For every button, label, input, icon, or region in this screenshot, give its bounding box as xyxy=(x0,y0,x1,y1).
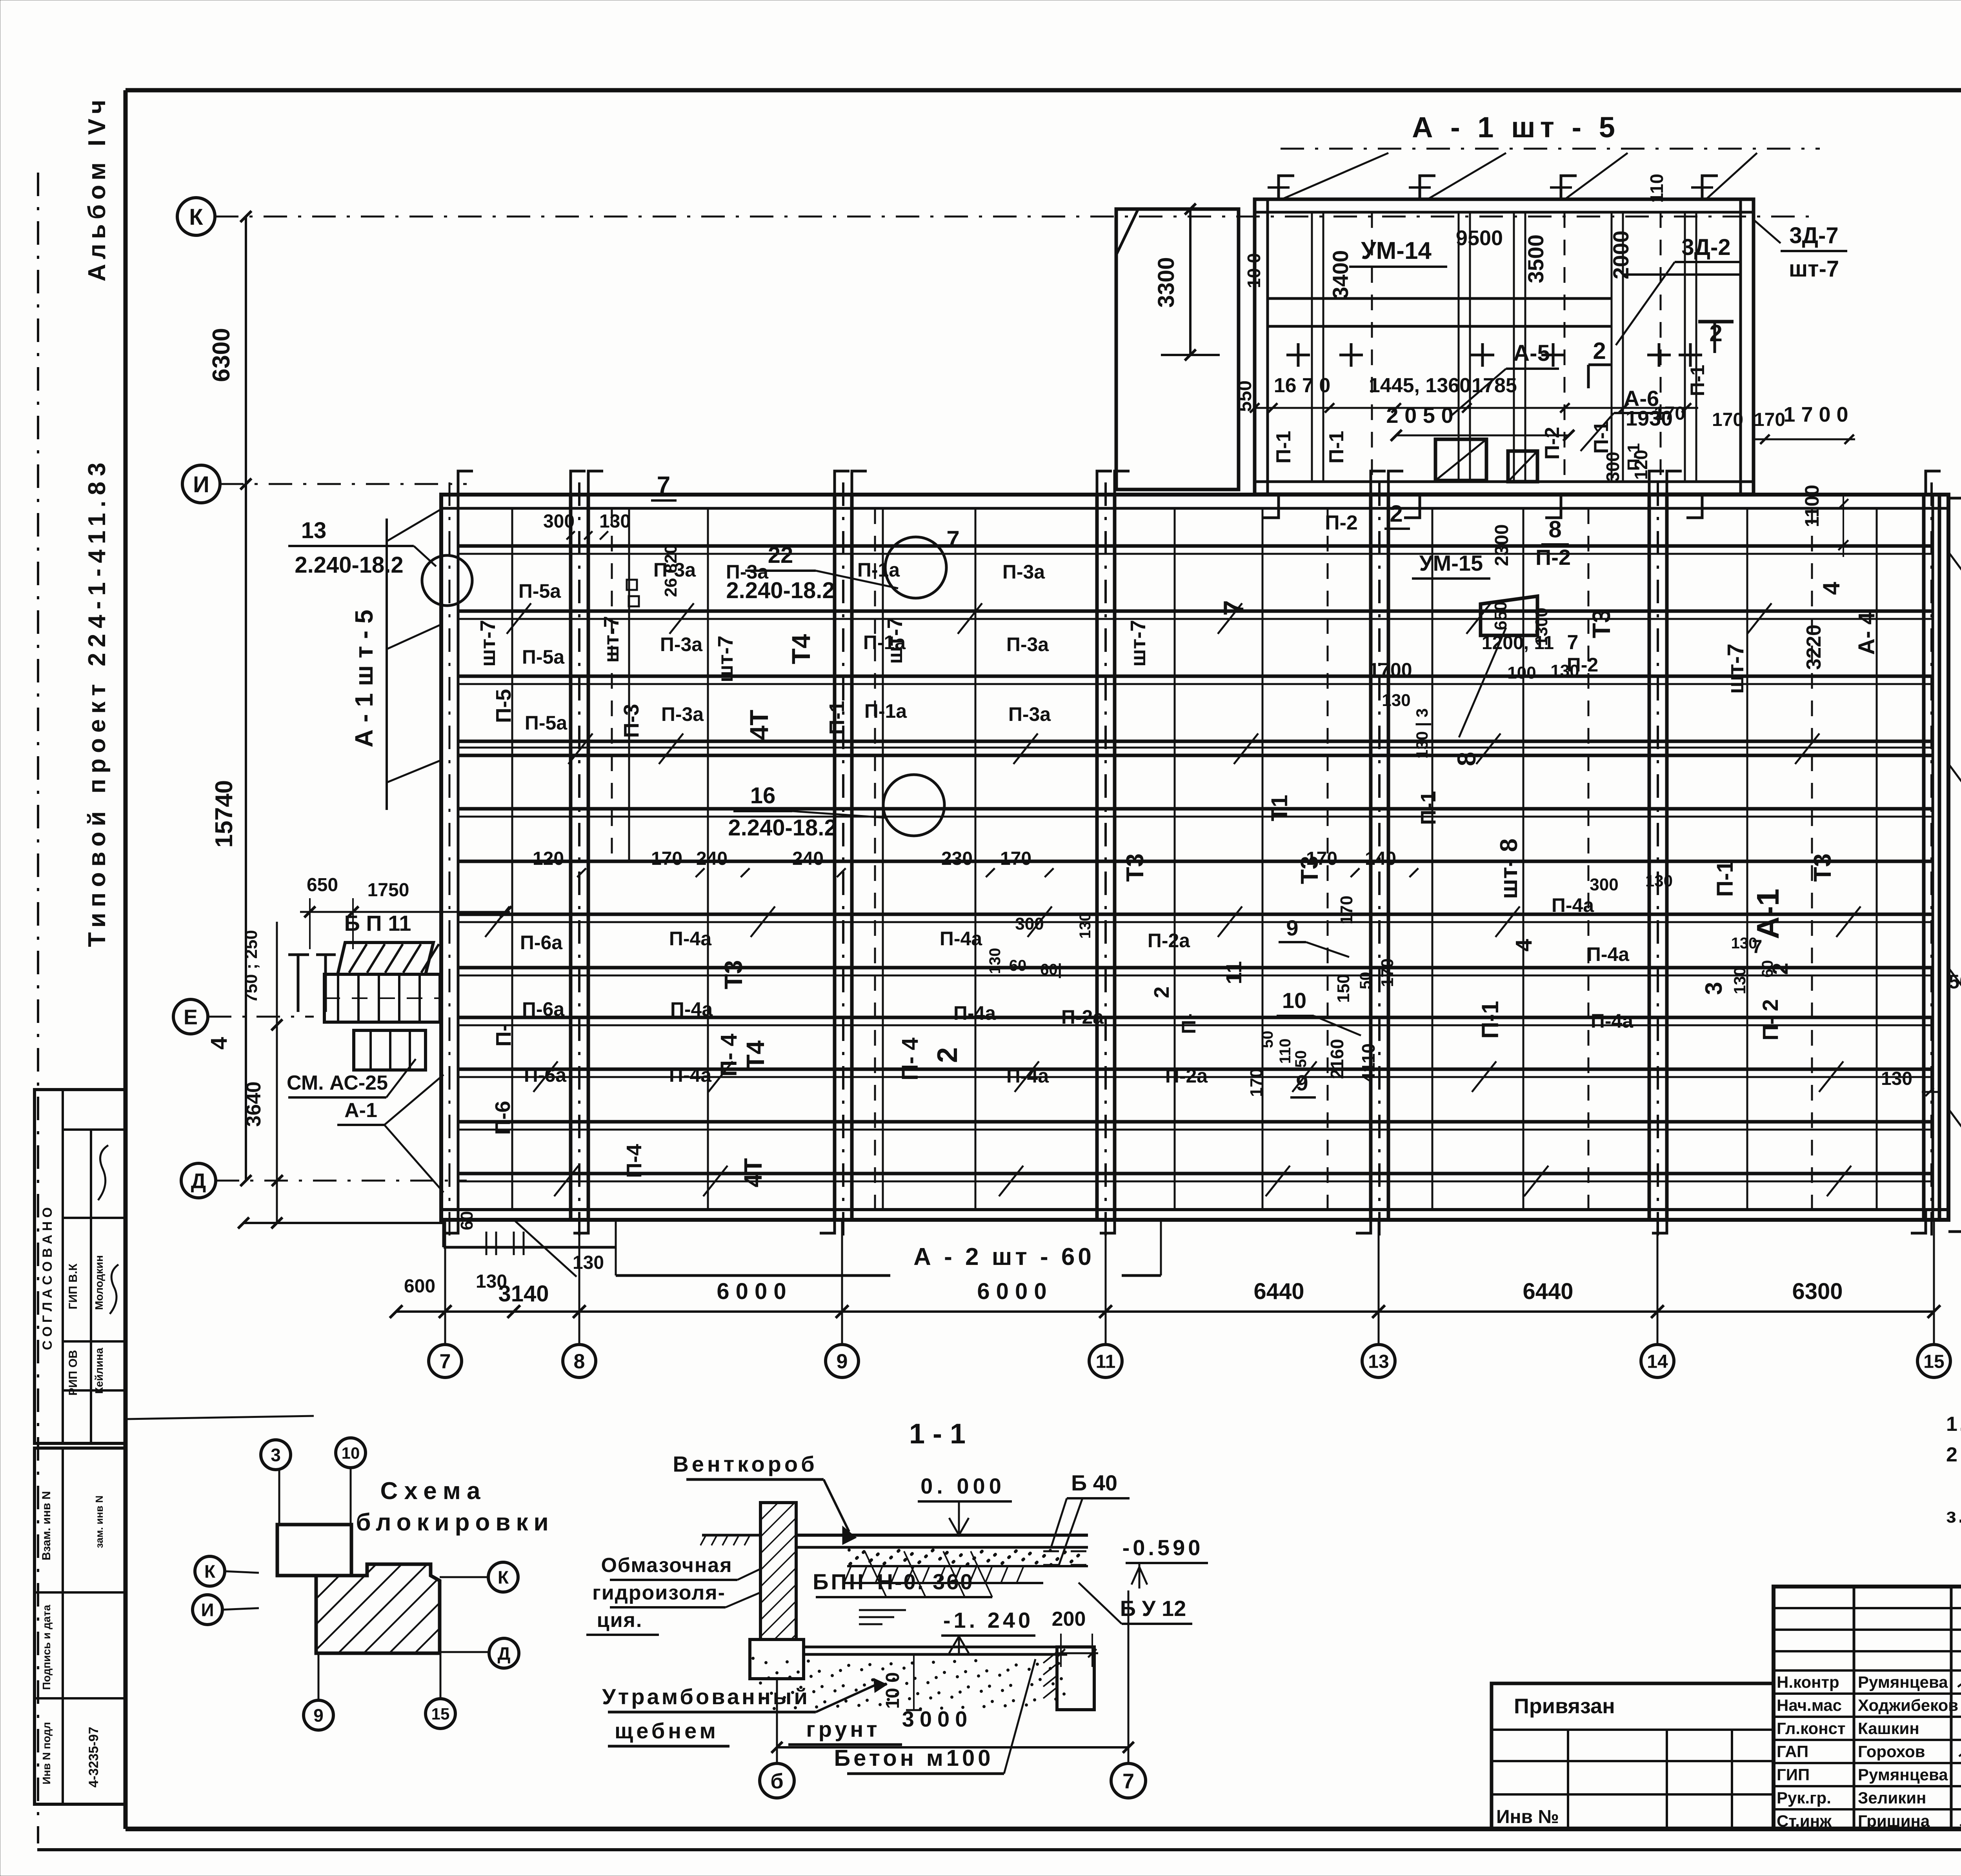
axis Д dash-dot line xyxy=(216,1180,467,1182)
svg-text:150: 150 xyxy=(1334,974,1353,1003)
svg-text:П-3: П-3 xyxy=(620,704,643,738)
vertical bracket label А-1 шт-5 left of plan xyxy=(386,519,388,810)
svg-text:П-4а: П-4а xyxy=(669,1064,712,1086)
svg-text:Гришина: Гришина xyxy=(1858,1812,1930,1830)
title block staff row lines xyxy=(1774,1669,1961,1672)
svg-text:3640: 3640 xyxy=(242,1081,265,1127)
svg-text:Горохов: Горохов xyxy=(1858,1742,1925,1761)
svg-text:130: 130 xyxy=(1382,691,1410,710)
upper plan vertical panel joints xyxy=(1311,212,1313,482)
svg-text:И: И xyxy=(201,1600,214,1620)
svg-text:9500: 9500 xyxy=(1456,226,1503,250)
svg-text:Румянцева: Румянцева xyxy=(1858,1765,1948,1784)
svg-text:-1. 240: -1. 240 xyxy=(943,1608,1033,1632)
opening rect УМ-15 xyxy=(1481,596,1537,635)
svg-text:50: 50 xyxy=(1357,972,1374,990)
svg-text:1. Данный лист см. совместн: 1. Данный лист см. совместно с АС-17. xyxy=(1946,1413,1961,1436)
svg-text:3Д-2: 3Д-2 xyxy=(1681,235,1730,260)
svg-text:РИП ОВ: РИП ОВ xyxy=(67,1350,80,1396)
svg-text:300: 300 xyxy=(1603,452,1623,482)
svg-text:Кашкин: Кашкин xyxy=(1858,1719,1919,1738)
svg-text:шт-7: шт-7 xyxy=(883,617,907,664)
svg-text:1700: 1700 xyxy=(1368,659,1412,681)
upper plan internal horizontal lines xyxy=(1268,297,1612,300)
left stamp signature squiggles xyxy=(98,1145,108,1200)
svg-text:10 0: 10 0 xyxy=(882,1672,903,1709)
svg-text:П-5: П-5 xyxy=(492,689,515,723)
svg-text:Схема: Схема xyxy=(380,1478,487,1505)
svg-text:Инв №: Инв № xyxy=(1496,1807,1559,1827)
svg-text:9: 9 xyxy=(837,1350,848,1373)
svg-text:П-6: П-6 xyxy=(491,1101,515,1135)
axis circle 15 xyxy=(1917,1345,1950,1377)
svg-text:П-5а: П-5а xyxy=(525,712,568,734)
title block column lines xyxy=(1853,1587,1855,1829)
axis Е dash-dot line xyxy=(208,1016,314,1018)
svg-text:10 0: 10 0 xyxy=(1244,253,1264,288)
stray horizontal line below stamp xyxy=(127,1416,314,1419)
axis circle 9 xyxy=(826,1345,859,1377)
svg-text:11: 11 xyxy=(1221,961,1246,984)
svg-text:П-: П- xyxy=(492,1024,515,1047)
svg-text:Подпись и дата: Подпись и дата xyxy=(40,1605,53,1690)
detail circle mid xyxy=(885,537,946,598)
svg-text:2 * 3Д-7 только для сечения: 2 * 3Д-7 только для сечения 2-2 для подв… xyxy=(1946,1443,1961,1466)
svg-text:П-1: П-1 xyxy=(1272,431,1295,464)
schema axis circle 3 xyxy=(261,1440,291,1470)
svg-text:П-1а: П-1а xyxy=(864,700,907,722)
svg-text:2300: 2300 xyxy=(1492,524,1512,566)
svg-text:Гл.конст: Гл.конст xyxy=(1777,1719,1846,1738)
svg-text:650: 650 xyxy=(1491,601,1510,630)
svg-text:7: 7 xyxy=(440,1350,451,1373)
svg-text:Б 40: Б 40 xyxy=(1071,1470,1117,1495)
svg-text:22: 22 xyxy=(768,542,793,568)
svg-text:110: 110 xyxy=(1277,1039,1294,1064)
svg-text:Т3: Т3 xyxy=(1122,853,1149,882)
svg-text:170: 170 xyxy=(1000,848,1031,869)
svg-text:500: 500 xyxy=(1948,971,1961,993)
svg-text:60: 60 xyxy=(1759,960,1776,978)
axis drop lines to circles xyxy=(444,1220,446,1345)
svg-text:П-1а: П-1а xyxy=(857,559,900,581)
svg-text:Взам. инв N: Взам. инв N xyxy=(40,1491,53,1561)
svg-text:6440: 6440 xyxy=(1523,1279,1573,1304)
svg-text:14: 14 xyxy=(1647,1351,1668,1372)
svg-text:П-6а: П-6а xyxy=(522,998,565,1020)
svg-text:Типовой проект 224-1-411.83: Типовой проект 224-1-411.83 xyxy=(84,457,111,947)
svg-text:3: 3 xyxy=(271,1445,281,1465)
axis circle И left xyxy=(182,465,220,503)
svg-text:гидроизоля-: гидроизоля- xyxy=(592,1581,726,1604)
svg-text:Б У 12: Б У 12 xyxy=(1120,1596,1186,1621)
axis circle 7 xyxy=(429,1345,462,1377)
upper plan dimension 3300 xyxy=(1189,209,1192,355)
axis 7 dash line in wall xyxy=(449,482,451,1236)
svg-text:СМ. АС-25: СМ. АС-25 xyxy=(287,1072,388,1094)
svg-text:4-3235-97: 4-3235-97 xyxy=(86,1727,101,1787)
svg-text:1445, 1360: 1445, 1360 xyxy=(1369,374,1471,397)
section 1-1 bottom stipple xyxy=(752,1657,755,1660)
svg-text:16: 16 xyxy=(750,783,776,808)
svg-text:9: 9 xyxy=(1286,915,1298,940)
anchor hooks main plan bottom xyxy=(443,1210,458,1233)
section 1-1 bottom floor slab xyxy=(804,1646,1067,1649)
title block main outline xyxy=(1774,1587,1961,1829)
svg-text:6440: 6440 xyxy=(1253,1279,1304,1304)
svg-text:П-3а: П-3а xyxy=(1002,561,1045,583)
svg-text:4Т: 4Т xyxy=(744,710,773,740)
svg-text:А-1: А-1 xyxy=(344,1099,377,1122)
tick on Д axis second chain xyxy=(272,1175,283,1186)
svg-text:170: 170 xyxy=(651,848,682,869)
svg-text:П-3а: П-3а xyxy=(726,561,769,583)
upper plan anchor hooks bottom xyxy=(1263,494,1279,518)
schema axis circle К right xyxy=(488,1562,518,1592)
svg-text:П-4а: П-4а xyxy=(940,928,982,950)
svg-text:4: 4 xyxy=(1818,582,1845,595)
svg-text:П-1: П-1 xyxy=(1417,791,1440,825)
section 1-1 wall footing xyxy=(750,1639,804,1679)
axis circle 14 xyxy=(1641,1345,1674,1377)
secondary horizontal lines (panel edges) xyxy=(458,553,1933,555)
svg-text:П-3а: П-3а xyxy=(660,633,703,655)
svg-text:170: 170 xyxy=(1654,403,1685,424)
П mark next to dim xyxy=(297,955,300,1012)
svg-text:шт- 8: шт- 8 xyxy=(1495,839,1523,899)
upper plan anchor hooks top xyxy=(1279,176,1294,199)
svg-text:170: 170 xyxy=(1754,409,1785,430)
svg-text:Д: Д xyxy=(191,1169,206,1193)
upper plan outline xyxy=(1255,199,1754,494)
section 1-1 БП11 slab band with ticks xyxy=(844,1582,1043,1584)
svg-text:ГИП: ГИП xyxy=(1777,1765,1810,1784)
svg-text:140: 140 xyxy=(1365,848,1396,869)
svg-text:2: 2 xyxy=(1150,986,1173,998)
svg-text:Б П 11: Б П 11 xyxy=(344,911,411,935)
svg-text:16 7 0: 16 7 0 xyxy=(1274,374,1331,397)
svg-text:Зеликин: Зеликин xyxy=(1858,1789,1926,1807)
svg-text:А-1: А-1 xyxy=(1750,889,1785,939)
schema axis circle И left xyxy=(193,1595,222,1625)
svg-text:Т3: Т3 xyxy=(1296,856,1323,884)
svg-text:3400: 3400 xyxy=(1328,250,1353,299)
svg-text:П-6а: П-6а xyxy=(520,932,563,953)
axis circle 11 xyxy=(1089,1345,1122,1377)
БП11 ribbed panel plan xyxy=(324,974,440,1022)
svg-text:110: 110 xyxy=(1646,174,1667,203)
detail circle lower xyxy=(883,775,944,836)
svg-text:1100: 1100 xyxy=(1801,485,1823,527)
svg-text:1750: 1750 xyxy=(367,880,409,901)
svg-text:4110: 4110 xyxy=(1358,1043,1379,1083)
svg-text:П- 4: П- 4 xyxy=(716,1034,742,1076)
lower ribbed panel piece xyxy=(354,1030,426,1070)
main plan outer boundary xyxy=(441,495,1948,1220)
svg-text:П-4а: П-4а xyxy=(953,1002,996,1024)
svg-text:П-4: П-4 xyxy=(622,1144,646,1178)
svg-text:6300: 6300 xyxy=(208,328,235,382)
section 1-1 screed stipple band xyxy=(848,1549,851,1552)
svg-text:Д: Д xyxy=(498,1643,511,1664)
svg-text:БПII: БПII xyxy=(813,1569,866,1594)
svg-text:50: 50 xyxy=(1259,1031,1276,1048)
svg-text:П-4а: П-4а xyxy=(1552,894,1594,916)
svg-text:8: 8 xyxy=(574,1350,585,1373)
left stamp box СОГЛАСОВАНО xyxy=(35,1090,126,1443)
bottom dim ticks xyxy=(390,1305,403,1318)
svg-text:130: 130 xyxy=(599,511,631,532)
axis circle 8 xyxy=(563,1345,596,1377)
section 1-1 wall hatched xyxy=(760,1503,796,1639)
section 1-1 dashed beam right xyxy=(1043,1550,1088,1552)
svg-text:60|: 60| xyxy=(1040,961,1062,978)
svg-text:П- 2: П- 2 xyxy=(1758,999,1783,1041)
svg-text:11: 11 xyxy=(1096,1351,1116,1372)
svg-text:П-3а: П-3а xyxy=(1006,633,1049,655)
svg-text:13: 13 xyxy=(301,518,327,543)
section 1-1 axis circle 7 xyxy=(1111,1763,1146,1798)
svg-text:П-6а: П-6а xyxy=(524,1064,567,1086)
svg-text:15740: 15740 xyxy=(211,780,238,848)
svg-text:блокировки: блокировки xyxy=(356,1509,554,1536)
svg-text:П-4а: П-4а xyxy=(1587,943,1630,965)
svg-text:7: 7 xyxy=(946,526,959,552)
svg-text:7: 7 xyxy=(657,472,670,499)
section 1-1 right beam block xyxy=(1057,1647,1094,1710)
svg-text:Т1: Т1 xyxy=(1267,795,1292,821)
svg-text:1200, 11: 1200, 11 xyxy=(1482,633,1554,653)
svg-text:3Д-7: 3Д-7 xyxy=(1789,223,1838,248)
axis И dash-dot line xyxy=(220,483,467,485)
svg-text:600: 600 xyxy=(404,1276,435,1297)
svg-text:Молодкин: Молодкин xyxy=(93,1255,105,1310)
sheet frame border xyxy=(126,88,1961,93)
svg-text:170: 170 xyxy=(1378,958,1397,987)
svg-text:А - 1 ш т - 5: А - 1 ш т - 5 xyxy=(350,610,378,747)
svg-text:А- 4: А- 4 xyxy=(1854,612,1879,655)
svg-text:шт-7: шт-7 xyxy=(1723,644,1748,694)
schema hatched block xyxy=(316,1564,440,1653)
svg-text:Т3: Т3 xyxy=(1809,853,1836,882)
svg-text:3220: 3220 xyxy=(1803,624,1825,670)
svg-text:П-4а: П-4а xyxy=(670,998,713,1020)
diagonal leader ticks texture xyxy=(507,603,531,634)
svg-text:7: 7 xyxy=(1122,1769,1134,1793)
svg-text:зам. инв N: зам. инв N xyxy=(93,1496,105,1548)
svg-text:Бетон м100: Бетон м100 xyxy=(834,1745,993,1771)
svg-text:П-1: П-1 xyxy=(1477,1001,1503,1039)
svg-text:К: К xyxy=(204,1561,216,1582)
anchor hooks main plan top xyxy=(458,471,473,495)
svg-text:П-: П- xyxy=(1178,1014,1200,1034)
svg-text:шт-7: шт-7 xyxy=(600,616,623,662)
schema axis circle 10 xyxy=(336,1438,366,1468)
svg-text:130: 130 xyxy=(573,1252,604,1273)
svg-text:грунт: грунт xyxy=(806,1717,880,1741)
axis circle Е left xyxy=(173,999,208,1034)
schema axis circle 9 xyxy=(304,1700,333,1730)
section 1-1 ground line left of wall xyxy=(702,1534,760,1537)
svg-text:3300: 3300 xyxy=(1153,257,1179,308)
svg-text:П-2: П-2 xyxy=(1325,511,1358,534)
svg-text:60: 60 xyxy=(1009,957,1027,974)
left stamp box Взам.инв / Подпись и дата / Инв.N подл xyxy=(35,1448,126,1804)
svg-text:Привязан: Привязан xyxy=(1514,1694,1615,1718)
svg-text:100: 100 xyxy=(1507,663,1536,682)
svg-text:П-1: П-1 xyxy=(1686,365,1708,396)
diagonal leaders to right bracket xyxy=(1949,553,1961,643)
svg-text:Т4: Т4 xyxy=(741,1040,769,1070)
svg-text:170: 170 xyxy=(1247,1068,1266,1097)
svg-text:6 0 0 0: 6 0 0 0 xyxy=(717,1279,786,1304)
svg-text:П-3а: П-3а xyxy=(653,559,696,581)
svg-text:П-1: П-1 xyxy=(1325,431,1348,464)
svg-text:170: 170 xyxy=(1712,409,1743,430)
svg-text:П-1: П-1 xyxy=(1590,421,1613,454)
upper plan dim line under labels xyxy=(1255,407,1698,409)
svg-text:0. 000: 0. 000 xyxy=(920,1474,1005,1498)
svg-text:170: 170 xyxy=(1337,895,1356,924)
svg-text:2160: 2160 xyxy=(1327,1039,1347,1079)
svg-text:И: И xyxy=(193,472,209,497)
svg-text:130: 130 xyxy=(1077,913,1094,939)
svg-text:1 7 0 0: 1 7 0 0 xyxy=(1783,403,1848,426)
svg-text:П-1: П-1 xyxy=(825,701,849,735)
svg-text:300: 300 xyxy=(1015,914,1044,933)
svg-text:П-4а: П-4а xyxy=(669,928,712,950)
svg-text:ГАП: ГАП xyxy=(1777,1742,1808,1761)
svg-text:300: 300 xyxy=(1590,875,1618,894)
svg-text:130: 130 xyxy=(1731,935,1757,952)
svg-text:230: 230 xyxy=(941,848,973,869)
svg-text:шт-7: шт-7 xyxy=(476,620,500,666)
svg-text:750 ; 250: 750 ; 250 xyxy=(242,930,261,1003)
svg-text:С О Г Л А С О В А Н О: С О Г Л А С О В А Н О xyxy=(40,1207,55,1350)
schema axis circle 15 xyxy=(426,1699,455,1729)
svg-text:шт-7: шт-7 xyxy=(1126,620,1150,666)
schema axis circle К left xyxy=(195,1556,225,1586)
svg-text:Т4: Т4 xyxy=(786,634,815,664)
title block signatures xyxy=(1958,1682,1961,1689)
plan bottom edge extension line to dim chains xyxy=(244,1222,444,1224)
svg-text:шт-7: шт-7 xyxy=(1789,256,1839,282)
svg-text:7: 7 xyxy=(1567,631,1579,654)
svg-text:А - 1 шт - 5: А - 1 шт - 5 xyxy=(1412,111,1620,144)
svg-text:120: 120 xyxy=(533,848,564,869)
svg-text:Румянцева: Румянцева xyxy=(1858,1673,1948,1691)
svg-text:60: 60 xyxy=(457,1211,477,1230)
bottom dimension chain line xyxy=(396,1310,1934,1313)
svg-text:Нач.мас: Нач.мас xyxy=(1777,1696,1842,1714)
svg-text:650: 650 xyxy=(307,875,338,895)
svg-text:4: 4 xyxy=(206,1037,232,1050)
svg-text:8: 8 xyxy=(1548,516,1561,542)
svg-text:130: 130 xyxy=(1645,872,1673,890)
svg-text:Инв N подл: Инв N подл xyxy=(40,1722,53,1784)
svg-text:К: К xyxy=(498,1567,509,1588)
svg-text:130: 130 xyxy=(986,948,1004,974)
svg-text:4: 4 xyxy=(1511,939,1537,952)
svg-text:П-2: П-2 xyxy=(1541,427,1564,460)
section 1-1 axis circle 6 xyxy=(760,1763,794,1798)
svg-text:П-5а: П-5а xyxy=(518,580,561,602)
second vertical dim chain 3640 xyxy=(276,922,278,1223)
svg-text:УМ-14: УМ-14 xyxy=(1361,237,1432,264)
svg-text:130: 130 xyxy=(1730,967,1749,994)
upper plan break-line rectangle left xyxy=(1116,209,1239,489)
svg-text:9: 9 xyxy=(313,1705,324,1726)
left extension step of plan bottom xyxy=(442,1220,445,1247)
svg-text:10: 10 xyxy=(1282,988,1306,1013)
section 1-1 floor slab top lines xyxy=(796,1534,1088,1537)
svg-text:3000: 3000 xyxy=(902,1707,973,1731)
svg-text:П-2а: П-2а xyxy=(1165,1065,1208,1087)
left fold dash-dot mark xyxy=(37,173,39,1843)
svg-text:Т3: Т3 xyxy=(1587,609,1615,639)
upper plan small openings xyxy=(1435,439,1486,480)
svg-text:П-1: П-1 xyxy=(1712,860,1738,897)
axis K dash-dot line xyxy=(215,216,1820,218)
svg-text:К: К xyxy=(189,204,203,230)
svg-text:з. Торцы панелей перекрытия: з. Торцы панелей перекрытия по осям 8, 9… xyxy=(1946,1505,1961,1527)
left vertical dimension line 6300 / 15740 xyxy=(245,217,247,1181)
main plan axis wall strips xyxy=(569,495,573,1220)
svg-text:50: 50 xyxy=(1292,1050,1310,1068)
svg-text:П-2а: П-2а xyxy=(1148,930,1190,952)
svg-text:Альбом IVч: Альбом IVч xyxy=(84,95,111,281)
svg-text:6 0 0 0: 6 0 0 0 xyxy=(977,1279,1046,1304)
svg-text:10: 10 xyxy=(342,1444,360,1462)
svg-text:6300: 6300 xyxy=(1792,1279,1843,1304)
svg-text:Венткороб: Венткороб xyxy=(673,1452,817,1476)
svg-text:Кейлина: Кейлина xyxy=(93,1348,105,1394)
svg-text:А - 2 шт - 60: А - 2 шт - 60 xyxy=(913,1243,1095,1270)
title block left attachment box Привязан xyxy=(1492,1683,1774,1829)
axis circle Д left xyxy=(181,1163,216,1198)
svg-text:ГИП В.К: ГИП В.К xyxy=(67,1263,80,1309)
svg-text:Т3: Т3 xyxy=(719,960,748,990)
svg-text:П-3а: П-3а xyxy=(661,703,704,725)
svg-text:550: 550 xyxy=(1235,380,1255,412)
svg-text:240: 240 xyxy=(696,848,728,869)
schema axis circle Д right xyxy=(489,1638,519,1668)
svg-text:Н-0. 360: Н-0. 360 xyxy=(877,1569,974,1594)
title block upper small rows xyxy=(1774,1607,1961,1609)
detail circle on axis 7 wall xyxy=(422,555,472,606)
main plan intermediate vertical joints xyxy=(511,508,513,1210)
svg-text:1785: 1785 xyxy=(1472,374,1517,397)
axis circle K left xyxy=(177,198,215,235)
svg-text:П-3а: П-3а xyxy=(1008,703,1051,725)
svg-text:2: 2 xyxy=(1390,500,1403,527)
svg-text:шт-7: шт-7 xyxy=(714,635,737,682)
svg-text:4Т: 4Т xyxy=(739,1158,767,1188)
svg-text:Рук.гр.: Рук.гр. xyxy=(1777,1789,1831,1807)
svg-text:УМ-15: УМ-15 xyxy=(1419,551,1483,575)
svg-text:П-4а: П-4а xyxy=(1591,1010,1634,1032)
svg-text:Е: Е xyxy=(184,1005,198,1029)
svg-text:300: 300 xyxy=(543,511,575,532)
svg-text:2000: 2000 xyxy=(1608,231,1633,280)
main plan horizontal panel lines xyxy=(458,544,1933,548)
svg-text:П-2: П-2 xyxy=(1567,654,1598,676)
schema upper white rectangle xyxy=(277,1525,351,1576)
svg-text:200: 200 xyxy=(1052,1608,1086,1630)
svg-text:П-2: П-2 xyxy=(1535,545,1571,570)
small double ticks bottom-left xyxy=(486,1232,488,1255)
svg-text:130: 130 xyxy=(1881,1068,1912,1089)
